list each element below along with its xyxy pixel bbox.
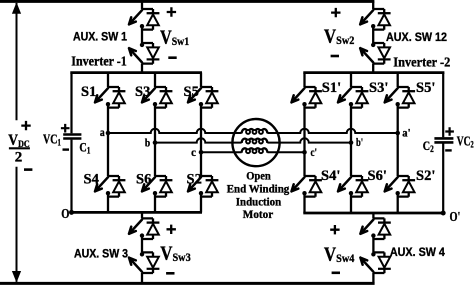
wire: inverter-1 top bus — [70, 71, 202, 74]
label S1 — [81, 84, 96, 100]
Vdc/2 arrowhead down — [12, 271, 21, 283]
svg-text:b': b' — [356, 135, 363, 149]
label S2' — [416, 168, 435, 184]
node c — [199, 150, 204, 155]
svg-text:S1': S1' — [322, 80, 341, 96]
label + (VSw1) — [167, 7, 176, 16]
switch S4 (IGBT with antiparallel diode) — [95, 176, 125, 197]
svg-text:S5: S5 — [184, 84, 199, 100]
label a — [100, 125, 105, 139]
label AUX. SW 4 — [390, 245, 445, 259]
label + (VSw4) — [330, 225, 339, 234]
svg-text:2: 2 — [15, 149, 23, 165]
svg-text:S3: S3 — [135, 84, 150, 100]
label - (VSw4) — [332, 271, 340, 274]
label S3 — [135, 84, 150, 100]
label S2 — [187, 172, 202, 188]
node O' — [441, 211, 446, 216]
svg-text:S4: S4 — [84, 172, 99, 188]
node O — [69, 210, 74, 215]
svg-text:Motor: Motor — [243, 207, 273, 221]
svg-text:S2': S2' — [416, 168, 435, 184]
svg-text:Inverter -2: Inverter -2 — [393, 55, 450, 70]
wire: inverter-2 leg 2 upper — [350, 73, 352, 87]
label AUX. SW 1 — [73, 29, 127, 43]
svg-text:S5': S5' — [416, 80, 435, 96]
motor circle (open end winding induction motor) — [232, 119, 279, 166]
wire: AUX SW 1 upper lead — [141, 1, 143, 9]
label VC1 — [43, 132, 61, 148]
label Inverter -1 — [71, 53, 127, 68]
label - (VSw3) — [166, 272, 174, 275]
label VSw3 — [160, 243, 191, 264]
wire: inverter-1 leg 2 middle — [154, 104, 156, 176]
wire: AUX SW 12 middle link — [372, 26, 374, 44]
AUX SW 12 lower device (switch + diode, inverted) — [360, 43, 390, 64]
switch S5 (IGBT with antiparallel diode) — [188, 87, 218, 108]
wire: inverter-1 leg 3 lower — [200, 193, 202, 213]
label c — [191, 145, 196, 159]
wire: AUX SW 1 lower lead — [141, 64, 143, 73]
wire: inverter-1 leg 2 lower — [154, 193, 156, 213]
wire: inverter-1 leg 3 upper — [200, 73, 202, 87]
wire: phase a line (a to a') — [108, 129, 398, 133]
svg-text:AUX. SW 3: AUX. SW 3 — [74, 246, 128, 260]
label - (C1) — [63, 148, 70, 150]
node c' — [302, 150, 307, 155]
node b — [153, 140, 158, 145]
label C1 — [79, 141, 90, 156]
node b' — [349, 140, 354, 145]
wire: AUX SW 3 lower lead — [141, 273, 143, 283]
wire: inverter-1 leg 1 upper — [107, 73, 109, 87]
switch S5' (IGBT with antiparallel diode) — [385, 87, 415, 108]
label - (VSw1) — [168, 56, 176, 59]
label AUX. SW 3 — [74, 246, 128, 260]
wire: inverter-2 leg 3 upper — [397, 73, 399, 87]
label S3' — [369, 80, 388, 96]
switch S3' (IGBT with antiparallel diode) — [338, 87, 368, 108]
capacitor C2 bottom lead — [442, 144, 444, 214]
label AUX. SW 12 — [386, 30, 447, 44]
node a' — [395, 131, 400, 136]
AUX SW 1 lower device (switch + diode, inverted) — [129, 43, 159, 64]
label b — [145, 136, 151, 150]
svg-text:O: O — [61, 207, 69, 222]
node a — [106, 131, 111, 136]
wire: inverter-2 leg 1 upper — [303, 73, 305, 87]
label Open — [246, 168, 271, 182]
wire: inverter-2 bottom bus — [303, 212, 444, 215]
switch S6' (IGBT with antiparallel diode) — [338, 176, 368, 197]
label VC2 — [457, 134, 474, 150]
label S1' — [322, 80, 341, 96]
label a' — [402, 126, 410, 140]
switch S4' (IGBT with antiparallel diode) — [292, 176, 322, 197]
wire: inverter-2 leg 2 middle — [350, 104, 352, 176]
wire: inverter-2 top bus — [303, 71, 444, 74]
AUX SW 3 upper device (switch + diode) — [129, 218, 159, 239]
svg-text:S6: S6 — [136, 172, 151, 188]
AUX SW 3 lower device (switch + diode, inverted) — [129, 252, 159, 273]
svg-text:S6': S6' — [368, 168, 387, 184]
motor winding coil phase b — [242, 139, 268, 144]
wire: AUX SW 4 upper lead — [372, 213, 374, 218]
label O — [61, 207, 69, 222]
label + (C1) — [61, 124, 70, 133]
svg-text:b: b — [145, 136, 151, 150]
switch S6 (IGBT with antiparallel diode) — [142, 176, 172, 197]
wire: inverter-2 leg 3 lower — [397, 193, 399, 213]
label S4 — [84, 172, 99, 188]
svg-text:a': a' — [402, 126, 410, 140]
capacitor C2 top lead — [442, 73, 444, 138]
label O' — [450, 210, 461, 225]
svg-text:S4': S4' — [321, 168, 340, 184]
svg-text:AUX. SW 12: AUX. SW 12 — [386, 30, 447, 44]
svg-text:a: a — [100, 125, 105, 139]
label + (VSw3) — [167, 225, 176, 234]
wire: AUX SW 12 lower lead — [372, 64, 374, 73]
switch S2' (IGBT with antiparallel diode) — [385, 176, 415, 197]
label + (VSw2) — [331, 8, 340, 17]
label 2 (Vdc/2) — [15, 149, 23, 165]
label C2 — [423, 139, 434, 154]
label - (C2) — [445, 149, 452, 151]
wire: inverter-1 leg 2 upper — [154, 73, 156, 87]
svg-text:O': O' — [450, 210, 461, 225]
AUX SW 4 upper device (switch + diode) — [360, 218, 390, 239]
AUX SW 1 upper device (switch + diode) — [129, 9, 159, 30]
svg-text:S2: S2 — [187, 172, 202, 188]
wire: inverter-2 leg 3 middle — [397, 104, 399, 176]
label + (Vdc) — [21, 121, 30, 130]
wire: AUX SW 12 upper lead — [372, 1, 374, 9]
label + (C2) — [445, 127, 454, 136]
wire: AUX SW 3 middle link — [141, 235, 143, 253]
motor winding coil phase c — [242, 148, 268, 153]
svg-text:S1: S1 — [81, 84, 96, 100]
wire: inverter-2 leg 1 lower — [303, 193, 305, 213]
wire: AUX SW 3 upper lead — [141, 212, 143, 218]
svg-text:End Winding: End Winding — [227, 182, 290, 196]
switch S2 (IGBT with antiparallel diode) — [188, 176, 218, 197]
label VSw4 — [324, 245, 355, 266]
wire: phase c line (c to c') — [201, 151, 305, 153]
Vdc fraction bar — [9, 147, 30, 149]
label S4' — [321, 168, 340, 184]
AUX SW 4 lower device (switch + diode, inverted) — [360, 252, 390, 273]
svg-text:c: c — [191, 145, 196, 159]
wire: AUX SW 4 middle link — [372, 235, 374, 253]
wire: bottom DC rail — [0, 282, 375, 285]
label Inverter -2 — [393, 55, 450, 70]
wire: inverter-2 leg 1 middle — [303, 104, 305, 176]
wire: phase b line (b to b') — [155, 138, 351, 142]
label VSw2 — [324, 26, 355, 47]
svg-text:AUX. SW 1: AUX. SW 1 — [73, 29, 127, 43]
wire: inverter-1 leg 3 middle — [200, 104, 202, 176]
switch S1' (IGBT with antiparallel diode) — [292, 87, 322, 108]
label S5' — [416, 80, 435, 96]
label Motor — [243, 207, 273, 221]
wire: AUX SW 1 middle link — [141, 26, 143, 44]
label VSw1 — [160, 27, 189, 48]
label b' — [356, 135, 363, 149]
wire: top DC rail — [0, 0, 374, 3]
motor winding coil phase a — [242, 129, 268, 134]
capacitor C1 top lead — [70, 73, 72, 134]
wire: AUX SW 4 lower lead — [372, 273, 374, 283]
svg-text:Inverter -1: Inverter -1 — [71, 53, 127, 68]
switch S1 (IGBT with antiparallel diode) — [95, 87, 125, 108]
capacitor C1 plates — [63, 135, 81, 139]
label End Winding — [227, 182, 290, 196]
label - (VSw2) — [331, 55, 339, 58]
label c' — [311, 145, 318, 159]
switch S3 (IGBT with antiparallel diode) — [142, 87, 172, 108]
svg-text:Open: Open — [246, 168, 271, 182]
wire: inverter-1 bottom bus — [70, 211, 202, 214]
Vdc/2 dimension arrow line — [16, 3, 18, 282]
label Vdc/2 — [8, 132, 30, 150]
label Induction — [236, 195, 282, 209]
label S5 — [184, 84, 199, 100]
capacitor C1 bottom lead — [70, 140, 72, 213]
label - (Vdc) — [24, 168, 32, 171]
label S6 — [136, 172, 151, 188]
svg-text:c': c' — [311, 145, 318, 159]
Vdc/2 arrowhead up — [12, 2, 21, 14]
label S6' — [368, 168, 387, 184]
capacitor C2 plates — [434, 138, 453, 142]
wire: inverter-2 leg 2 lower — [350, 193, 352, 213]
wire: inverter-1 leg 1 middle — [107, 104, 109, 176]
svg-text:AUX. SW 4: AUX. SW 4 — [390, 245, 445, 259]
AUX SW 12 upper device (switch + diode) — [360, 9, 390, 30]
svg-text:S3': S3' — [369, 80, 388, 96]
wire: inverter-1 leg 1 lower — [107, 193, 109, 213]
